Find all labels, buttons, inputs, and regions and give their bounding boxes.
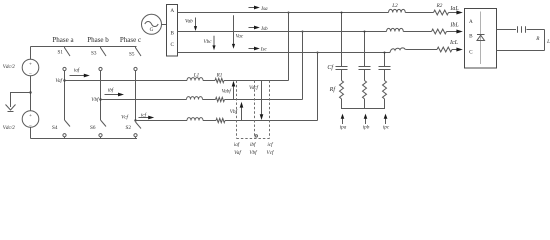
svg-text:S1: S1 xyxy=(58,50,64,56)
svg-text:Vabf: Vabf xyxy=(222,88,233,95)
wire top dc bus xyxy=(31,46,137,48)
svg-text:L2: L2 xyxy=(391,3,398,9)
svg-text:S4: S4 xyxy=(52,125,58,131)
wire C mid xyxy=(407,49,438,51)
arrow Vab xyxy=(194,18,197,32)
wire filter riser b xyxy=(364,32,366,67)
inductor L1 row a xyxy=(187,78,203,81)
svg-text:Rf: Rf xyxy=(329,86,337,93)
svg-text:IaL: IaL xyxy=(449,6,459,12)
wire filter riser a xyxy=(341,13,343,67)
svg-text:ipc: ipc xyxy=(383,125,390,131)
capacitor Cf a xyxy=(336,67,348,70)
wire cap to res a xyxy=(341,70,343,81)
inductor L1 row c xyxy=(187,118,203,121)
svg-text:R: R xyxy=(535,36,540,42)
node Vcf junction xyxy=(134,119,136,121)
dashed tap c xyxy=(269,81,271,139)
svg-text:Vcf: Vcf xyxy=(267,149,275,156)
switch S6 xyxy=(99,120,106,139)
wire dc top riser xyxy=(30,47,32,60)
arrow ipb xyxy=(364,114,368,124)
svg-text:L1: L1 xyxy=(193,73,200,79)
node filter c xyxy=(384,52,386,54)
svg-text:Vbf: Vbf xyxy=(249,149,258,156)
wire phase C bus xyxy=(178,52,391,54)
svg-text:S3: S3 xyxy=(91,50,97,56)
resistor load ticks xyxy=(518,26,526,32)
arrow Isb xyxy=(249,26,260,30)
wire generator to box xyxy=(162,24,167,26)
svg-text:Vdc/2: Vdc/2 xyxy=(3,64,16,70)
arrow IaL xyxy=(456,11,462,15)
resistor Rf b xyxy=(363,81,367,99)
wire cap to res c xyxy=(384,70,386,81)
arrow IbL xyxy=(456,30,462,34)
wire load top xyxy=(497,29,517,31)
svg-text:Phase b: Phase b xyxy=(87,36,109,44)
svg-text:Vaf: Vaf xyxy=(55,77,63,84)
node filter a xyxy=(341,12,343,14)
arrow Vbf mid xyxy=(240,102,244,121)
wire to ground xyxy=(11,93,31,108)
resistor R1 row b xyxy=(216,97,225,101)
switch S3 xyxy=(99,47,106,71)
svg-text:G: G xyxy=(150,27,154,33)
wire filter bottom bus xyxy=(341,108,385,110)
wire B to box xyxy=(447,31,458,33)
wire between sources xyxy=(30,76,32,111)
arrow ipa xyxy=(341,114,345,124)
svg-text:Vab: Vab xyxy=(185,18,193,24)
arrow Isa xyxy=(249,6,260,10)
wire bottom dc bus xyxy=(31,138,138,140)
wire load top right xyxy=(527,29,545,31)
arrow ipc xyxy=(384,114,388,124)
svg-text:iaf: iaf xyxy=(234,141,241,148)
inductor L1 row b xyxy=(187,97,203,100)
wire phase leg c xyxy=(135,71,137,121)
wire dc bottom drop xyxy=(30,127,32,138)
svg-text:Vbc: Vbc xyxy=(203,39,212,45)
arrow ibf xyxy=(105,93,125,97)
wire row b bus xyxy=(101,99,187,101)
wire phase A bus xyxy=(178,12,389,14)
ground xyxy=(6,105,16,112)
wire row c mid xyxy=(203,120,216,122)
wire load bottom xyxy=(497,50,545,52)
svg-text:ibf: ibf xyxy=(250,141,257,148)
wire A to box xyxy=(449,12,458,14)
resistor R1 row c xyxy=(216,118,225,122)
svg-text:+: + xyxy=(29,62,32,68)
diode string xyxy=(477,12,485,65)
dashed tap a xyxy=(236,81,238,139)
node riser b xyxy=(302,31,304,33)
svg-text:S2: S2 xyxy=(126,125,132,131)
node midpoint junction xyxy=(29,91,31,93)
node Vbf junction xyxy=(99,98,101,100)
svg-text:iaf: iaf xyxy=(74,67,81,74)
wire phase B bus xyxy=(178,31,387,33)
resistor R1 row a xyxy=(215,78,224,82)
wire row b mid xyxy=(203,99,216,101)
wire row a bus xyxy=(65,80,188,82)
dashed tap b xyxy=(254,81,256,139)
svg-text:Isc: Isc xyxy=(260,46,268,52)
dashed bus xyxy=(237,138,270,140)
capacitor Cf c xyxy=(379,67,391,70)
node filter b xyxy=(364,31,366,33)
wire row a right xyxy=(224,80,289,82)
svg-text:B: B xyxy=(469,34,473,40)
node Vaf junction xyxy=(63,79,65,81)
arrow Isc xyxy=(249,47,260,51)
svg-text:Vaf: Vaf xyxy=(234,149,242,156)
arrow icf xyxy=(139,116,155,120)
wire phase leg a xyxy=(64,71,66,120)
svg-text:S5: S5 xyxy=(129,52,135,58)
svg-text:Phase c: Phase c xyxy=(120,36,141,44)
svg-text:Vcf: Vcf xyxy=(121,114,129,121)
wire row c bus xyxy=(136,120,188,122)
svg-text:ipb: ipb xyxy=(363,125,370,131)
wire row b right xyxy=(225,99,303,101)
wire load right xyxy=(544,30,546,51)
svg-text:B: B xyxy=(170,31,174,37)
resistor R2 phase C xyxy=(437,47,452,52)
arrow Vacf xyxy=(260,81,264,121)
node probe circle xyxy=(255,135,257,137)
svg-text:Vdc/2: Vdc/2 xyxy=(3,125,16,131)
wire riser a xyxy=(288,13,290,81)
svg-text:Cf: Cf xyxy=(327,64,334,71)
wire res to bus c xyxy=(384,99,386,109)
wire A mid xyxy=(405,12,433,14)
switch S4 xyxy=(63,120,70,139)
wire riser b xyxy=(302,32,304,100)
wire res to bus a xyxy=(341,99,343,109)
svg-text:R1: R1 xyxy=(216,73,223,79)
node riser c xyxy=(317,52,319,54)
svg-text:R2: R2 xyxy=(436,3,443,9)
resistor Rf a xyxy=(340,81,344,99)
arrow Vac xyxy=(232,15,235,49)
switch S1 xyxy=(63,47,70,71)
wire filter riser c xyxy=(384,53,386,67)
svg-text:S6: S6 xyxy=(90,125,96,131)
arrow IcL xyxy=(456,48,462,52)
wire B mid xyxy=(403,31,431,33)
capacitor Cf b xyxy=(359,67,371,70)
svg-text:A: A xyxy=(170,8,174,14)
voltage source Vdc/2 top xyxy=(22,59,39,77)
source box ABC xyxy=(167,5,178,57)
node riser a xyxy=(288,12,290,14)
arrow Vabf xyxy=(232,81,236,100)
switch S2 xyxy=(134,122,141,139)
inductor L2 phase C xyxy=(390,48,407,53)
rectifier box xyxy=(465,9,497,69)
wire row c right xyxy=(225,120,318,122)
svg-text:Isa: Isa xyxy=(260,6,268,12)
svg-text:L: L xyxy=(546,39,550,45)
wire riser c xyxy=(317,53,319,121)
svg-text:Isb: Isb xyxy=(260,26,268,32)
svg-text:IcL: IcL xyxy=(449,40,459,46)
svg-text:Phase a: Phase a xyxy=(52,36,74,44)
svg-text:IbL: IbL xyxy=(449,23,459,29)
resistor R2 phase A xyxy=(434,10,449,15)
inductor L2 phase A xyxy=(389,9,406,12)
resistor R2 phase B xyxy=(432,29,447,34)
svg-text:ibf: ibf xyxy=(108,86,115,93)
wire phase leg b xyxy=(100,71,102,120)
arrow Vbc xyxy=(212,36,215,51)
wire row a mid xyxy=(203,80,215,82)
svg-text:ipa: ipa xyxy=(340,125,347,131)
svg-text:Vbf: Vbf xyxy=(230,108,239,115)
wire res to bus b xyxy=(364,99,366,109)
arrow iaf xyxy=(70,74,90,78)
svg-text:Vac: Vac xyxy=(236,34,244,40)
svg-text:Vbf: Vbf xyxy=(91,96,100,103)
svg-text:A: A xyxy=(469,19,473,25)
svg-text:icf: icf xyxy=(267,141,274,148)
inductor L2 phase B xyxy=(387,28,404,31)
svg-text:C: C xyxy=(469,50,473,56)
wire C to box xyxy=(452,49,458,51)
voltage source Vdc/2 bottom xyxy=(22,111,39,129)
svg-text:C: C xyxy=(170,42,174,48)
resistor Rf c xyxy=(383,81,387,99)
generator G xyxy=(142,14,162,34)
switch S5 xyxy=(134,47,141,71)
svg-text:+: + xyxy=(29,113,32,119)
wire cap to res b xyxy=(364,70,366,81)
